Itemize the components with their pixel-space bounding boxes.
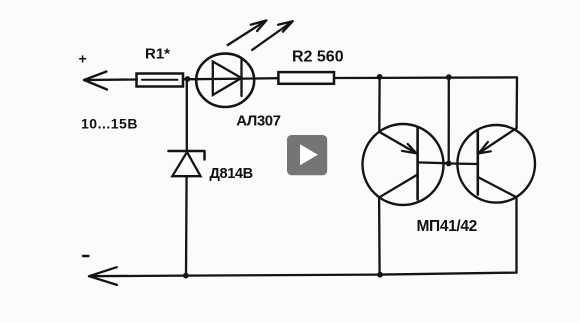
wire R1 to R2 through LED: [183, 78, 279, 79]
resistor R2: [278, 72, 334, 84]
zener diode VD1 Д814В: [169, 151, 205, 176]
LED light arrow 1: [228, 21, 267, 46]
wire VT2 collector down: [515, 197, 517, 272]
svg-text:R2 560: R2 560: [292, 49, 344, 66]
transistor VT2: [449, 125, 535, 203]
wire right corner down to VT2 emitter: [515, 77, 518, 128]
svg-text:R1*: R1*: [145, 46, 170, 63]
svg-text:МП41/42: МП41/42: [417, 218, 477, 235]
svg-text:+: +: [79, 51, 87, 67]
node D base junction dot: [446, 161, 452, 167]
wire VT1 collector down: [378, 198, 381, 275]
wire node B down to VT1 emitter: [378, 77, 381, 132]
wire node C down to bases: [448, 77, 450, 163]
node B junction dot: [377, 74, 383, 80]
svg-text:Д814В: Д814В: [210, 166, 253, 182]
wire zener down to bottom rail: [185, 176, 188, 275]
LED light arrow 2: [252, 21, 293, 50]
LED D1 АЛ307: [196, 54, 254, 107]
node C junction dot: [446, 74, 452, 80]
wire top rail R2 to right corner: [334, 76, 517, 79]
node - terminal arrow: [89, 267, 117, 285]
node + terminal arrow: [84, 72, 137, 90]
node E junction dot: [377, 272, 383, 278]
node A junction dot: [185, 76, 191, 82]
wire node A down to zener: [186, 79, 188, 151]
transistor VT1: [363, 124, 449, 205]
resistor R1: [137, 74, 184, 87]
node F junction dot: [183, 273, 189, 279]
svg-text:10...15В: 10...15В: [81, 116, 138, 132]
wire bottom rail: [89, 273, 517, 277]
svg-text:АЛ307: АЛ307: [236, 112, 280, 129]
play button overlay: [287, 135, 327, 175]
label -: [83, 255, 89, 257]
